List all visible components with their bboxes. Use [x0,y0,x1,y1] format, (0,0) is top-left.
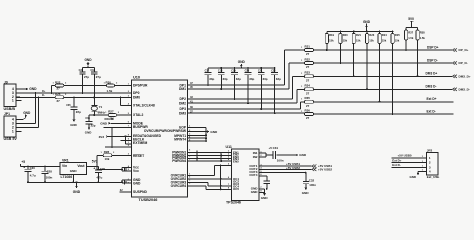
svg-text:27: 27 [306,116,310,120]
svg-text:DM3_D-: DM3_D- [459,87,470,91]
svg-text:DP_D-: DP_D- [459,61,468,65]
svg-text:GND: GND [210,130,218,134]
svg-text:R27: R27 [108,109,114,113]
svg-text:R29 1k: R29 1k [105,117,115,121]
svg-text:Vout: Vout [77,164,85,168]
svg-text:15k: 15k [356,39,361,43]
svg-text:22p: 22p [91,123,96,127]
svg-text:15k: 15k [329,39,334,43]
svg-text:4: 4 [429,170,431,174]
svg-text:USB 5V: USB 5V [4,137,18,141]
svg-text:R32: R32 [305,57,311,61]
svg-text:Vin: Vin [62,164,67,168]
svg-text:R22: R22 [55,80,61,84]
svg-text:27: 27 [306,104,310,108]
svg-text:R33: R33 [305,71,311,75]
svg-text:TPS2046: TPS2046 [226,201,241,205]
svg-text:R21: R21 [356,33,361,37]
svg-text:1.5k: 1.5k [107,89,113,93]
svg-text:Vcc: Vcc [133,169,139,173]
svg-text:100n: 100n [46,175,53,179]
svg-text:OVRCUR4: OVRCUR4 [171,184,187,188]
svg-text:R38: R38 [420,31,425,35]
svg-text:Y1: Y1 [99,105,103,109]
svg-text:GND: GND [261,196,269,200]
svg-text:R25: R25 [395,33,400,37]
svg-text:DSP D-: DSP D- [427,58,438,62]
svg-text:C17: C17 [205,70,210,73]
svg-text:USB/B: USB/B [4,107,16,111]
svg-text:LT1086: LT1086 [61,175,73,179]
svg-text:+5V USB0: +5V USB0 [398,154,412,158]
svg-text:DM3_D+: DM3_D+ [459,74,471,78]
svg-text:+: + [23,166,25,170]
svg-text:Ext D+: Ext D+ [427,97,437,101]
svg-text:R30: R30 [106,80,112,84]
svg-text:C18: C18 [218,70,223,73]
svg-text:10k: 10k [105,157,110,161]
svg-text:Ext_USb: Ext_USb [427,175,440,179]
svg-text:33p: 33p [209,77,214,81]
svg-text:+5V USB2: +5V USB2 [286,166,300,170]
svg-text:C30: C30 [30,166,36,170]
svg-text:27p: 27p [96,75,101,79]
svg-text:C32: C32 [309,179,315,183]
svg-text:+5: +5 [21,160,25,164]
svg-text:MPINT4: MPINT4 [174,138,186,142]
svg-text:DM3 D+: DM3 D+ [426,72,438,76]
svg-text:JP1: JP1 [4,112,10,116]
svg-text:GND: GND [70,169,78,173]
svg-text:33p: 33p [276,77,281,81]
svg-text:XTAL2: XTAL2 [133,113,143,117]
svg-text:EN5: EN5 [233,160,239,164]
svg-text:33p: 33p [236,77,241,81]
svg-text:4.7u: 4.7u [30,173,36,177]
svg-text:1.5k: 1.5k [420,36,426,40]
svg-text:OUT4: OUT4 [249,173,257,177]
svg-text:GND: GND [85,131,92,135]
svg-text:SUSPND: SUSPND [133,190,147,194]
svg-text:GND: GND [73,190,81,194]
svg-text:GND: GND [363,20,371,24]
svg-text:DM2: DM2 [179,101,186,105]
svg-text:27: 27 [57,99,61,103]
svg-text:1: 1 [12,130,14,134]
svg-text:XTAL1/CLK48: XTAL1/CLK48 [133,103,155,107]
svg-text:15k: 15k [382,39,387,43]
svg-text:27: 27 [306,52,310,56]
svg-text:DP0: DP0 [133,91,140,95]
svg-text:DSP D+: DSP D+ [427,45,439,49]
svg-text:R37: R37 [408,31,413,35]
svg-text:33p: 33p [263,77,268,81]
svg-text:C28: C28 [47,170,53,174]
svg-text:3V3: 3V3 [99,135,105,139]
svg-text:J9: J9 [4,80,8,84]
svg-text:GND: GND [238,60,246,64]
svg-text:15k: 15k [395,39,400,43]
svg-text:C33: C33 [79,69,84,72]
svg-text:5V0: 5V0 [408,17,414,21]
svg-text:4.7u: 4.7u [96,175,102,179]
svg-text:33p: 33p [223,77,228,81]
svg-text:C20: C20 [245,70,250,73]
svg-text:R34: R34 [305,84,311,88]
svg-text:R36: R36 [305,108,311,112]
svg-text:OC5: OC5 [233,187,239,191]
svg-text:+5 C31: +5 C31 [269,146,279,150]
svg-text:GND: GND [100,121,108,125]
svg-text:GND: GND [133,181,141,185]
svg-text:R24: R24 [382,33,387,37]
svg-text:15k: 15k [369,39,374,43]
svg-text:27p: 27p [84,75,89,79]
svg-text:DP_D+: DP_D+ [459,48,469,52]
svg-text:PWRON4: PWRON4 [172,159,186,163]
svg-text:R35: R35 [305,96,311,100]
svg-text:22p: 22p [76,110,81,114]
svg-text:R28: R28 [104,150,110,154]
svg-text:27: 27 [306,65,310,69]
svg-text:1: 1 [12,99,14,103]
svg-text:DM3: DM3 [179,111,186,115]
svg-text:D+: D+ [42,89,46,93]
svg-text:C29: C29 [100,167,106,171]
svg-text:C21: C21 [258,70,263,73]
svg-text:2: 2 [429,161,431,165]
svg-text:GND: GND [251,190,259,194]
svg-text:1.5k: 1.5k [408,36,414,40]
svg-text:DM3 D-: DM3 D- [426,85,437,89]
svg-text:R31: R31 [305,44,311,48]
svg-text:R23: R23 [369,33,374,37]
svg-text:U10: U10 [133,76,140,80]
svg-text:+5V USB2: +5V USB2 [318,168,332,172]
svg-text:GND: GND [410,175,417,179]
svg-text:IN2: IN2 [253,155,258,159]
svg-text:C34: C34 [90,69,95,72]
svg-text:Ext D-: Ext D- [392,163,401,167]
svg-text:C35: C35 [66,104,71,107]
svg-text:U11: U11 [226,145,232,149]
svg-text:DM0: DM0 [133,95,140,99]
svg-text:33p: 33p [249,77,254,81]
svg-text:1: 1 [429,156,431,160]
svg-text:100n: 100n [277,158,284,162]
svg-text:GND: GND [29,87,37,91]
svg-text:15k: 15k [343,39,348,43]
svg-text:R20: R20 [343,33,348,37]
svg-text:27: 27 [57,87,61,91]
svg-text:Ext D+: Ext D+ [392,158,402,162]
svg-text:GND: GND [84,58,92,62]
svg-text:DP0/PUR: DP0/PUR [133,83,148,87]
svg-text:27: 27 [306,92,310,96]
svg-text:VR1: VR1 [62,159,69,163]
svg-text:EXTMEM: EXTMEM [133,141,147,145]
svg-text:C36: C36 [85,117,90,120]
svg-text:GND: GND [299,153,307,157]
svg-text:GND: GND [23,111,31,115]
svg-text:JP2: JP2 [427,148,433,152]
svg-text:D-: D- [42,93,45,97]
svg-text:+: + [93,166,95,170]
svg-text:GND: GND [302,191,310,195]
svg-text:R19: R19 [329,33,334,37]
svg-text:DM1: DM1 [179,87,186,91]
svg-text:GND: GND [70,123,77,127]
svg-text:C19: C19 [231,70,236,73]
svg-text:R26: R26 [55,92,61,96]
svg-text:Ext D-: Ext D- [427,109,436,113]
svg-text:TUSB2046: TUSB2046 [139,198,158,202]
svg-text:100n: 100n [309,183,316,187]
svg-text:C22: C22 [271,70,276,73]
svg-text:27: 27 [306,79,310,83]
svg-text:EOP: EOP [179,126,187,130]
